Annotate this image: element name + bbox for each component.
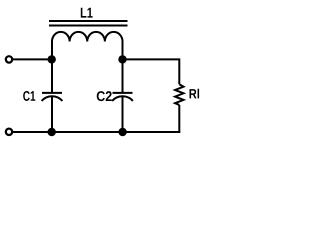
label C2 — [97, 91, 112, 101]
capacitor C1 curved plate — [42, 96, 63, 101]
inductor L1 core bar 1 — [49, 20, 128, 22]
label Rl — [190, 89, 200, 99]
terminal input top — [6, 56, 12, 62]
capacitor C1 top lead — [51, 59, 53, 93]
inductor L1 core bar 2 — [49, 25, 128, 27]
label C1 — [23, 91, 35, 101]
wire top-left — [13, 58, 52, 60]
capacitor C2 flat plate — [113, 92, 133, 94]
wire bottom rail — [13, 131, 181, 133]
wire resistor bottom lead — [178, 105, 180, 132]
junction node B — [118, 55, 126, 63]
capacitor C1 bottom lead — [51, 96, 53, 132]
label L1 — [81, 8, 93, 18]
capacitor C1 flat plate — [42, 92, 62, 94]
terminal input bottom — [6, 129, 12, 135]
junction node D — [118, 128, 126, 136]
capacitor C2 bottom lead — [122, 96, 124, 132]
capacitor C2 curved plate — [112, 96, 133, 101]
wire top-right to resistor — [123, 59, 180, 84]
junction node A — [48, 55, 56, 63]
inductor L1 winding — [52, 32, 123, 60]
junction node C — [48, 128, 56, 136]
resistor Rl zigzag — [175, 84, 183, 105]
capacitor C2 top lead — [122, 59, 124, 93]
